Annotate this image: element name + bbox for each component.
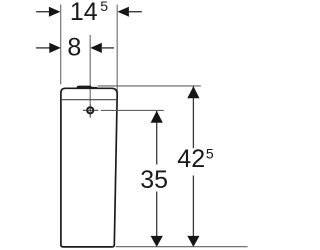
- svg-text:42: 42: [177, 145, 205, 173]
- dimension 8 arrow right: [90, 43, 102, 53]
- dimension 35 arrow down: [151, 236, 163, 247]
- extension line left (tank left edge, x=60.7): [60, 5, 62, 85]
- reference line top of cistern (42.5 datum): [98, 85, 201, 87]
- hole crosshair vertical: [89, 103, 91, 117]
- cistern lid seam: [62, 99, 117, 101]
- dimension 42.5 line lower segment: [192, 176, 194, 246]
- dimension 14.5 arrow left: [49, 7, 61, 17]
- water supply hole circle: [87, 107, 93, 113]
- dimension 35 arrow up: [151, 111, 163, 123]
- hole crosshair horizontal: [83, 109, 99, 111]
- svg-text:5: 5: [100, 0, 108, 14]
- dimension 42.5 arrow down: [187, 236, 199, 247]
- svg-text:35: 35: [140, 166, 168, 194]
- extension line hole center (x=90.2): [89, 35, 91, 103]
- dimension 8 tail right: [101, 47, 114, 49]
- cistern outline: [61, 88, 117, 247]
- dimension 8 tail left: [36, 47, 50, 49]
- dimension 14.5 tail right: [129, 11, 142, 13]
- dimension 8 arrow left: [49, 43, 61, 53]
- floor line: [116, 246, 248, 248]
- dimension 35 line upper segment: [156, 111, 158, 165]
- svg-text:14: 14: [70, 0, 98, 26]
- cistern lid button bump: [75, 86, 98, 89]
- dimension 35 line lower segment: [156, 192, 158, 246]
- reference line hole center (35 datum): [101, 109, 164, 111]
- dimension 42.5 arrow up: [187, 86, 199, 98]
- dimension 14.5 arrow right: [117, 7, 128, 17]
- svg-text:8: 8: [67, 34, 81, 62]
- extension line right (tank right edge, x=117.2): [116, 5, 118, 98]
- dimension 14.5 tail left: [36, 11, 50, 13]
- svg-text:5: 5: [206, 145, 214, 161]
- dimension 42.5 line upper segment: [192, 87, 194, 149]
